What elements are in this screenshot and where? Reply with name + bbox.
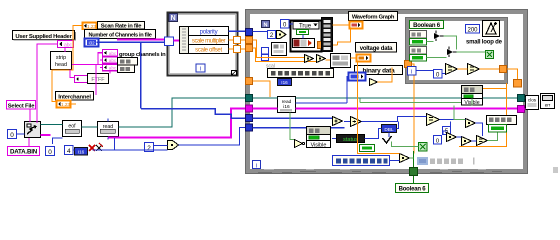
faint mark bottom right xyxy=(553,167,558,173)
comparison big triangle xyxy=(427,114,440,126)
svg-text:Scan Rate in file: Scan Rate in file xyxy=(101,24,143,30)
wire orange horizontal y88 xyxy=(462,88,506,90)
tunnel blue lower xyxy=(246,124,253,131)
svg-text:DBL: DBL xyxy=(384,127,394,133)
tunnel magenta path xyxy=(246,105,253,112)
function select 2 (small loop) xyxy=(447,47,459,58)
small while loop frame (top right) xyxy=(406,18,508,84)
box chinese small 1 xyxy=(118,58,138,66)
wire blue bands inside xyxy=(253,118,345,128)
triangle H (upper of cluster) xyxy=(466,119,476,128)
icon file dialog small xyxy=(272,43,287,56)
small blue tunnel boxes column xyxy=(262,48,269,61)
wire magenta to close xyxy=(525,108,526,110)
svg-text:1.23: 1.23 xyxy=(87,24,96,29)
wire string USH down to strip header xyxy=(64,48,66,52)
svg-text:2: 2 xyxy=(147,145,151,152)
svg-text:clos: clos xyxy=(528,98,537,103)
triangle F xyxy=(462,137,472,146)
tunnel on for loop left edge xyxy=(165,37,174,46)
watermark blue mark xyxy=(417,157,428,165)
wire orange scan rate left and down to interchannel col xyxy=(52,26,83,102)
wires small loop blue xyxy=(416,71,445,74)
tunnel orange multiplier on for edge xyxy=(234,37,241,44)
svg-text:N: N xyxy=(171,15,176,22)
green conditional square (small loop) xyxy=(486,51,494,59)
icon eof VI xyxy=(63,121,82,137)
svg-text:voltage data: voltage data xyxy=(360,46,393,52)
svg-text:User Supplied Header: User Supplied Header xyxy=(15,34,72,40)
wire string header terminals left links xyxy=(98,53,102,68)
terminal I32 (Number of Channels) xyxy=(85,39,99,47)
svg-text:eof: eof xyxy=(68,124,76,130)
wire orange binary aux xyxy=(378,68,393,83)
comparison triangle B xyxy=(317,55,326,63)
wire orange small loop out xyxy=(458,69,518,80)
svg-text:small loop de: small loop de xyxy=(466,40,503,46)
label Number of Channels in file xyxy=(85,30,156,39)
case read file icon band xyxy=(293,39,315,48)
property node boolean row 2 title xyxy=(410,47,427,55)
comparison triangle D xyxy=(468,64,480,75)
boolean TF bar below status xyxy=(360,145,375,152)
wire blue vertical from channels to band xyxy=(140,43,142,109)
label Scan Rate in file xyxy=(98,22,145,30)
wire blue number of channels right xyxy=(97,41,166,43)
constant 0 (case selector) xyxy=(281,20,290,29)
svg-text:I16: I16 xyxy=(281,80,288,85)
wire green visible2 down xyxy=(454,99,472,120)
terminal abc group ch 3 xyxy=(103,64,118,71)
function multiply small xyxy=(277,31,287,39)
property node Visible 2 xyxy=(462,86,483,107)
for loop N count terminal xyxy=(169,14,178,23)
wire orange multiplier out xyxy=(229,39,247,41)
wire blue lower band xyxy=(53,128,247,151)
svg-text:i: i xyxy=(200,67,201,73)
svg-text:abc: abc xyxy=(64,42,73,48)
tunnel orange offset on for edge xyxy=(234,46,241,53)
property node Visible 1 xyxy=(307,127,331,149)
svg-text:Number of Channels in file: Number of Channels in file xyxy=(88,33,151,39)
label chinese top (blocks) xyxy=(268,69,334,78)
tunnel orange small loop left edge xyxy=(405,61,412,68)
wire cluster pink into for loop xyxy=(117,39,167,41)
box chinese + TF (right, 读取数据) xyxy=(487,116,517,125)
box chinese small 2 xyxy=(118,65,135,72)
svg-text:Waveform Graph: Waveform Graph xyxy=(352,15,395,21)
property node boolean row 2 TF xyxy=(410,55,427,62)
function multiply (left bottom) xyxy=(168,141,179,150)
wire blue polarity out xyxy=(229,30,247,32)
icon wait ms metronome xyxy=(483,21,500,37)
box I16 blue dark (num type) xyxy=(278,79,292,86)
wire orange offset out xyxy=(229,48,247,50)
case true constant xyxy=(297,30,309,35)
icon close file VI xyxy=(526,96,539,110)
function increment triangle xyxy=(400,154,410,163)
subVI icon strip header xyxy=(51,52,72,70)
box I16 type (dark blue) xyxy=(75,148,88,156)
case selector True xyxy=(293,22,319,30)
wire teal inside loop xyxy=(253,97,519,99)
watermark gray text blocks xyxy=(430,158,475,165)
tunnel orange case right edge xyxy=(318,42,325,49)
svg-text:Boolean 6: Boolean 6 xyxy=(413,23,441,29)
tunnel blue polarity xyxy=(246,29,253,36)
comparison triangle A xyxy=(305,55,314,63)
box FTFF constant xyxy=(88,74,109,84)
icon swap bytes (red marks) xyxy=(89,143,103,151)
svg-text:200: 200 xyxy=(467,27,478,33)
wire orange case out to corner xyxy=(325,28,351,45)
wire orange from tunnels to triangles xyxy=(253,40,317,62)
tunnel orange multiplier xyxy=(246,37,253,44)
svg-text:0: 0 xyxy=(10,132,14,139)
for loop resize handle xyxy=(232,71,237,76)
constant 200 xyxy=(466,25,480,34)
icon build waveform (tall black) xyxy=(322,18,333,52)
terminal abc group ch 1 xyxy=(103,50,118,57)
wire teal to close xyxy=(525,97,526,99)
svg-text:N: N xyxy=(263,22,267,28)
wire green select to conditional xyxy=(392,142,419,159)
wire pink tunnel to unbundle xyxy=(174,40,180,42)
wire green conditional down to Boolean 6 xyxy=(413,151,415,183)
tunnel blue count xyxy=(246,115,253,122)
label Boolean 6 (top) xyxy=(410,21,444,30)
tunnel teal right edge xyxy=(518,95,525,102)
for loop frame xyxy=(168,13,238,76)
wire orange vertical long (voltage to bottom) xyxy=(358,62,400,154)
wire magenta file path long to loop xyxy=(41,109,247,138)
svg-text:0: 0 xyxy=(436,138,439,144)
terminal waveform graph (orange) xyxy=(350,22,363,29)
tunnel orange small loop right edge xyxy=(500,66,507,73)
label Boolean 6 (bottom) xyxy=(396,184,429,193)
svg-text:FTFF: FTFF xyxy=(91,77,105,83)
boolean TF bar (right) xyxy=(489,125,507,133)
function add A xyxy=(333,117,343,126)
constant 2 (inside loop) xyxy=(268,31,276,40)
wire string strip header down to format terminal xyxy=(70,70,74,78)
while loop frame xyxy=(246,10,528,174)
icon open file VI xyxy=(25,122,41,138)
svg-text:Visible: Visible xyxy=(311,142,327,148)
box DBL dark blue xyxy=(382,125,397,133)
small N box xyxy=(262,21,270,29)
svg-text:Boolean 6: Boolean 6 xyxy=(399,187,427,193)
label voltage data xyxy=(356,43,397,52)
while loop iteration terminal i xyxy=(253,161,261,170)
icon read file VI xyxy=(98,122,119,137)
wire orange interchannel into loop xyxy=(71,103,76,105)
wire blue label to increment xyxy=(390,160,400,162)
terminal abc group ch 2 xyxy=(103,57,118,64)
constant 5 blue xyxy=(443,127,451,136)
wire orange build to graph terminal xyxy=(333,25,351,29)
green conditional square xyxy=(419,143,428,152)
property node boolean row 1 TF xyxy=(410,39,427,46)
case structure frame xyxy=(291,21,322,52)
wire blue polarity inside xyxy=(253,31,268,33)
wire orange into read i16 xyxy=(253,81,271,97)
bottom edge texture of while loop xyxy=(258,172,502,173)
unbundle by name node xyxy=(180,27,229,54)
svg-text:binary data: binary data xyxy=(363,68,396,75)
terminal abc (User Supplied Header, string) xyxy=(58,41,74,49)
constant 0 (file open pos) xyxy=(8,130,17,139)
svg-text:DATA.BIN: DATA.BIN xyxy=(10,149,38,156)
wire orange stub to convert xyxy=(326,59,331,61)
wire green right TF link xyxy=(488,133,498,141)
tunnel orange offset xyxy=(246,45,253,52)
wire string from abc terminals down xyxy=(96,65,110,95)
constant small blue (aux) xyxy=(434,136,442,145)
label chinese blue (bottom) xyxy=(333,156,390,166)
tunnel teal refnum xyxy=(246,95,253,102)
tunnel orange interchannel xyxy=(246,78,253,85)
icon error handler VI xyxy=(541,94,555,109)
wire blue status/add links xyxy=(332,129,382,139)
triangle E (right cluster) xyxy=(447,133,457,142)
wire orange convert to voltage terminal xyxy=(351,57,357,59)
tunnel green bottom edge xyxy=(410,168,418,176)
tunnel orange scan rate (from left, under for loop) xyxy=(55,101,57,103)
icon convert to voltage xyxy=(331,54,351,68)
svg-text:polarity: polarity xyxy=(200,30,218,36)
wires small loop green xyxy=(427,36,486,58)
terminal DBL (Interchannel delay) xyxy=(57,101,71,108)
wire green read16 down to not xyxy=(290,113,294,140)
label User Supplied Header xyxy=(13,31,76,41)
constant 2 xyxy=(145,143,154,152)
constant 0 (small loop) xyxy=(434,70,443,79)
wires blue right cluster xyxy=(440,120,483,142)
label Waveform Graph xyxy=(349,12,398,21)
icon read i16 VI xyxy=(278,97,296,113)
function select (check) xyxy=(383,136,392,143)
wire string USH left down long xyxy=(37,44,58,123)
svg-text:err: err xyxy=(545,103,551,108)
wire magenta select file down to open icon xyxy=(29,110,30,147)
wire blue band stepped into loop xyxy=(141,109,246,119)
function not triangle xyxy=(295,140,305,148)
wire blue 0 to open icon xyxy=(17,133,25,135)
svg-text:head: head xyxy=(55,62,67,68)
svg-text:scale offset: scale offset xyxy=(195,48,222,54)
svg-text:4: 4 xyxy=(67,148,71,155)
constant 0 (second) xyxy=(46,147,55,156)
function small triangle below binary xyxy=(370,79,378,86)
label binary data xyxy=(355,66,403,75)
svg-text:Select File: Select File xyxy=(8,103,35,109)
svg-text:0: 0 xyxy=(48,149,52,156)
svg-text:Interchannel: Interchannel xyxy=(58,94,91,100)
wire green to visible2 left xyxy=(360,99,461,103)
svg-text:abc: abc xyxy=(109,51,117,56)
label DATA.BIN xyxy=(8,147,40,156)
label Interchannel xyxy=(56,92,94,101)
unbundle status (dark box) xyxy=(337,135,365,144)
wire orange vertical x414 xyxy=(413,67,415,154)
svg-text:scale multiplier: scale multiplier xyxy=(192,39,226,45)
svg-text:I32: I32 xyxy=(88,41,95,46)
svg-text:strip: strip xyxy=(56,55,66,61)
svg-text:1.23: 1.23 xyxy=(61,102,70,107)
triangle G xyxy=(477,136,488,146)
for loop iteration terminal i xyxy=(196,64,205,73)
wire blue read icon up xyxy=(107,119,109,140)
svg-text:i: i xyxy=(256,163,257,169)
terminal voltage data (orange) xyxy=(357,55,371,62)
svg-text:status: status xyxy=(343,137,358,143)
wires blue add chain xyxy=(344,117,427,129)
terminal binary data (blue) xyxy=(349,73,366,81)
svg-text:scal: scal xyxy=(266,64,275,70)
svg-text:i: i xyxy=(411,69,412,75)
label Select File xyxy=(7,101,36,110)
comparison triangle C xyxy=(446,64,458,75)
iteration terminal i (small loop) xyxy=(408,67,417,76)
junction orange square right xyxy=(514,80,522,88)
wire blue selector to const xyxy=(289,24,303,39)
wire magenta inside loop xyxy=(253,108,519,110)
wire blue DBL to select xyxy=(388,133,390,138)
svg-text:abc: abc xyxy=(109,58,117,63)
svg-text:abc: abc xyxy=(109,65,117,70)
function add B xyxy=(351,117,362,127)
wire orange down right side xyxy=(459,83,507,147)
function select 1 (small loop) xyxy=(434,31,446,42)
tunnel magenta right edge xyxy=(518,106,525,113)
svg-text:I16: I16 xyxy=(78,149,85,154)
wire string strip header out right xyxy=(72,64,102,66)
svg-text:True: True xyxy=(299,24,312,30)
constant 4 xyxy=(65,146,74,155)
property node boolean row 1 title xyxy=(410,31,427,39)
terminal abc (file format string) xyxy=(75,76,88,83)
wire teal refnum open to eof and onward xyxy=(41,98,247,127)
wire blue read16 to binary data xyxy=(296,77,350,104)
terminal DBL (Scan Rate in file) xyxy=(83,23,97,30)
